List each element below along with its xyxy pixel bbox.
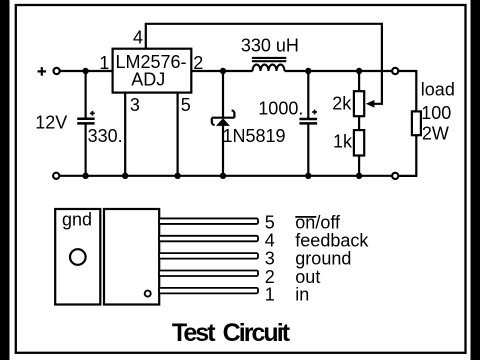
wire D1 cathode: [222, 71, 224, 118]
transistor U1 package TO-220 tab: [55, 209, 100, 305]
capacitor C2 1000uF: [299, 119, 317, 123]
wire inductor to output terminal: [285, 70, 393, 72]
junction R2 ground: [356, 173, 362, 179]
wire pin 5 on/off: [177, 93, 179, 176]
capacitor C1 330uF: [77, 119, 94, 124]
output terminal top: [392, 68, 398, 74]
svg-text:2: 2: [193, 53, 203, 73]
svg-text:330 uH: 330 uH: [241, 35, 299, 55]
resistor R2 1k: [354, 130, 364, 155]
diode D1 1N5819 schottky: [212, 111, 235, 126]
junction pin 5 ground: [174, 173, 180, 179]
junction C1 ground: [82, 173, 88, 179]
svg-text:1000.: 1000.: [258, 98, 303, 118]
junction R1 top: [356, 68, 362, 74]
C1 polarity +: [90, 111, 95, 116]
svg-text:load: load: [421, 80, 455, 100]
svg-text:1: 1: [265, 284, 275, 304]
junction input/C1: [82, 68, 88, 74]
wire C2 top: [307, 71, 309, 119]
output terminal bottom: [392, 173, 398, 179]
svg-text:5: 5: [181, 95, 191, 115]
wire C2 bottom: [307, 123, 309, 175]
resistor R3 load: [412, 111, 421, 135]
mounting hole: [70, 249, 86, 265]
pin 5 lead: [159, 218, 258, 224]
pin 4 lead: [159, 236, 258, 242]
svg-text:1N5819: 1N5819: [223, 126, 286, 146]
wire C1 bottom: [84, 123, 86, 175]
on overline: [295, 216, 316, 218]
svg-text:2W: 2W: [422, 123, 449, 143]
wiper arrowhead: [366, 100, 375, 108]
svg-text:ground: ground: [295, 249, 351, 269]
svg-text:feedback: feedback: [295, 230, 369, 250]
svg-text:4: 4: [133, 27, 143, 47]
U1 package body: [104, 209, 159, 305]
svg-text:2k: 2k: [332, 94, 352, 114]
svg-text:1k: 1k: [333, 132, 353, 152]
wire R1 to R2: [358, 116, 360, 130]
index dot: [145, 291, 151, 297]
wire input to pin 1: [60, 70, 113, 72]
wire R2 bottom: [358, 156, 360, 176]
wire load bottom: [399, 135, 417, 176]
junction diode D1 top: [220, 68, 226, 74]
wire output to load top: [399, 71, 417, 111]
input terminal +: [54, 68, 60, 74]
C2 polarity +: [312, 110, 317, 115]
input terminal minus: [53, 173, 59, 179]
wire pin 2 to inductor: [191, 70, 252, 72]
pin 2 lead: [159, 271, 258, 277]
svg-text:Test Circuit: Test Circuit: [172, 319, 291, 347]
inductor L1 330uH: [252, 58, 286, 71]
svg-text:12V: 12V: [35, 113, 67, 133]
resistor R1 2k potentiometer: [354, 91, 364, 116]
svg-text:4: 4: [265, 230, 275, 250]
svg-text:gnd: gnd: [62, 209, 92, 229]
svg-text:on/off: on/off: [295, 212, 341, 232]
pin 3 lead: [159, 253, 258, 259]
pin 1 lead: [159, 288, 258, 294]
junction C2 top: [305, 68, 311, 74]
node VIN+ plus sign: [38, 67, 47, 76]
svg-text:ADJ: ADJ: [131, 69, 165, 89]
junction D1 ground: [220, 173, 226, 179]
wire pin 4 feedback loop: [146, 24, 382, 104]
junction C2 ground: [305, 173, 311, 179]
wire C1 top: [84, 71, 86, 118]
svg-text:in: in: [295, 284, 309, 304]
wire pin 3 ground: [124, 93, 126, 176]
svg-text:330.: 330.: [88, 126, 123, 146]
svg-text:3: 3: [130, 95, 140, 115]
junction pin 3 ground: [122, 173, 128, 179]
svg-text:100: 100: [421, 103, 451, 123]
op-amp U1 LM2576 box: [113, 49, 192, 93]
svg-text:3: 3: [265, 249, 275, 269]
svg-text:5: 5: [265, 212, 275, 232]
wire R1 top: [358, 71, 360, 91]
wire D1 anode: [222, 125, 224, 175]
ground rail wire: [60, 175, 393, 177]
svg-text:1: 1: [99, 53, 109, 73]
